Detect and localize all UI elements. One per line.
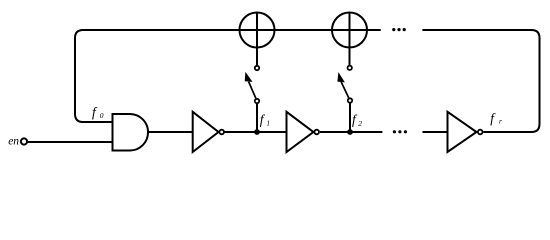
svg-text:1: 1 bbox=[266, 118, 270, 127]
svg-text:f: f bbox=[92, 104, 98, 119]
svg-text:r: r bbox=[499, 117, 502, 126]
svg-text:2: 2 bbox=[358, 119, 362, 128]
svg-text:f: f bbox=[352, 112, 358, 127]
svg-text:en: en bbox=[8, 135, 19, 147]
svg-text:f: f bbox=[260, 112, 266, 127]
svg-text:f: f bbox=[490, 110, 496, 125]
svg-text:0: 0 bbox=[100, 111, 104, 120]
